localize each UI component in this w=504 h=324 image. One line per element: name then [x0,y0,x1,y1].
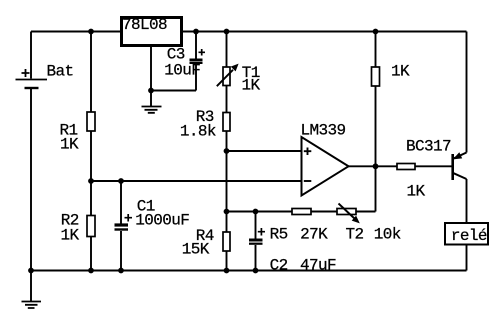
op-amp U2 LM339 [300,122,348,196]
potentiometer T2 [337,204,401,244]
resistor R3 [180,108,230,141]
node bottom rail C2 [253,268,259,274]
capacitor C1 [115,181,190,271]
svg-text:1K: 1K [60,227,79,245]
wire C3 bottom to ground stem [151,90,196,92]
node top rail R1 [88,29,94,35]
svg-text:27K: 27K [300,226,328,244]
node top rail T1 [224,29,230,35]
svg-text:Bat: Bat [46,63,73,81]
wire left rail lower [30,89,32,271]
node plus input [224,148,230,154]
thermistor T1 [217,64,261,95]
wire left rail upper [30,32,32,79]
node bottom rail R2 [88,268,94,274]
resistor 1K pull-up [372,63,410,87]
svg-text:1K: 1K [406,183,425,201]
wire top rail right [182,31,467,33]
relay relé [445,223,488,271]
svg-text:BC317: BC317 [406,138,451,156]
svg-text:10uF: 10uF [164,62,200,80]
wire right rail (to transistor) [466,32,468,153]
svg-text:C2: C2 [270,257,288,275]
wire op-amp output to base [349,165,453,167]
wire regulator ground stem [150,46,152,107]
ground (bottom left) [22,271,42,309]
node feedback R4 [224,209,230,215]
node top rail pull-up [373,29,379,35]
wire op-amp minus input [91,180,302,182]
wire R1-R2 chain [90,32,92,271]
wire bottom rail [31,270,467,272]
capacitor C3 [164,32,205,91]
svg-text:1000uF: 1000uF [135,212,189,230]
svg-text:10k: 10k [374,226,401,244]
svg-text:1K: 1K [60,136,79,154]
regulator U1 78L08 [122,16,182,46]
node bottom rail R4 [224,268,230,274]
svg-text:47uF: 47uF [300,257,336,275]
node top rail C3 [193,29,199,35]
wire feedback [227,211,376,213]
svg-text:LM339: LM339 [300,122,345,140]
svg-text:15K: 15K [182,241,210,259]
svg-text:R5: R5 [270,226,288,244]
svg-text:relé: relé [451,227,487,245]
ground (regulator) [142,107,162,113]
node minus input R1 [88,178,94,184]
svg-text:1.8k: 1.8k [180,123,216,141]
transistor Q1 BC317 [406,138,467,224]
resistor R2 [60,212,95,245]
wire top rail left [31,31,122,33]
node minus input C1 [118,178,124,184]
node bottom rail C1 [118,268,124,274]
svg-text:78L08: 78L08 [122,16,167,34]
resistor R4 [182,227,230,259]
svg-text:1K: 1K [241,77,260,95]
node bottom rail ground [28,268,34,274]
svg-text:1K: 1K [391,63,410,81]
battery Bat [16,63,74,89]
resistor R5 [270,209,329,244]
node regulator ground [148,88,154,94]
wire T1-R3-R4 chain [226,32,228,271]
resistor R1 [59,112,95,154]
wire op-amp plus input [227,150,302,152]
node output [373,163,379,169]
resistor 1K base [397,164,425,201]
node feedback C2 [253,209,259,215]
capacitor C2 [249,212,336,275]
svg-text:T2: T2 [345,226,363,244]
wire pull-up chain [375,32,377,212]
